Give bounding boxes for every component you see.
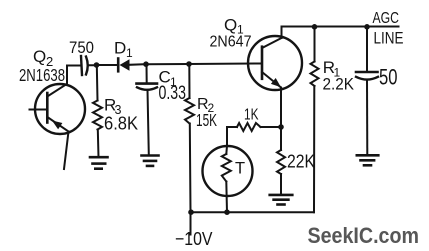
ground 22K [270,195,293,205]
svg-text:22K: 22K [287,152,315,172]
svg-text:1: 1 [126,46,133,60]
label Q2 [33,47,53,69]
resistor R1 [311,27,319,212]
wire Q1 collector riser [281,27,283,39]
svg-text:D: D [114,39,126,58]
label D1 [114,39,133,61]
svg-text:Q: Q [224,16,237,35]
svg-text:T: T [235,160,245,178]
label R1 [323,58,341,80]
label Q1 [224,16,244,37]
node dot R3 tap [94,62,100,68]
ground R3 [90,157,108,169]
svg-text:1K: 1K [244,107,259,124]
svg-text:15K: 15K [196,110,217,130]
capacitor C1 [137,64,158,155]
transistor Q1 [248,36,302,90]
capacitor 50 [356,27,378,155]
svg-text:2N1638: 2N1638 [19,65,65,85]
svg-text:LINE: LINE [374,30,404,48]
resistor 1K [227,123,281,146]
wire Q2 collector riser [67,66,81,85]
wire AGC top line [282,26,399,28]
node dot thermistor bottom [224,209,230,215]
wire R2 node to Q1 base [189,63,262,66]
node dot 50 top [364,24,370,30]
svg-text:0.33: 0.33 [159,83,187,104]
wire -10V rail [191,211,315,213]
wire -10V stub [190,212,192,234]
node dot emitter junction [278,124,284,130]
label R3 [104,96,122,118]
wire node to D1 [97,64,118,66]
resistor R2 [185,64,194,212]
ground 50 [357,155,379,165]
node dot R1 top [312,24,318,30]
svg-text:Q: Q [33,47,46,66]
capacitor 750 [81,56,97,75]
resistor 22K [277,127,285,195]
node dot rail left [188,209,194,215]
svg-text:2.2K: 2.2K [323,75,355,94]
svg-text:750: 750 [69,38,94,57]
node dot C1 tap [143,61,149,67]
label R2 [197,96,215,115]
svg-text:AGC: AGC [373,10,400,27]
svg-text:2N647: 2N647 [210,33,252,50]
svg-text:6.8K: 6.8K [104,114,138,134]
diode D1 [118,59,146,72]
transistor Q2 [30,84,86,134]
ground C1 [142,156,159,166]
wire Q2 emitter down (open) [64,132,69,170]
svg-text:−10V: −10V [175,228,213,249]
svg-text:SeekIC.com: SeekIC.com [308,223,420,248]
wire C1 node to R2 node [146,63,189,65]
thermistor T [203,146,253,212]
node dot R2 tap [186,61,192,67]
label C1 [159,68,178,90]
svg-text:50: 50 [379,65,398,90]
resistor R3 [93,65,102,157]
wire Q1 emitter riser [280,88,282,128]
